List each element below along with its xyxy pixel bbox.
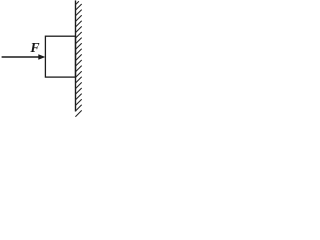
- svg-text:F: F: [29, 40, 39, 55]
